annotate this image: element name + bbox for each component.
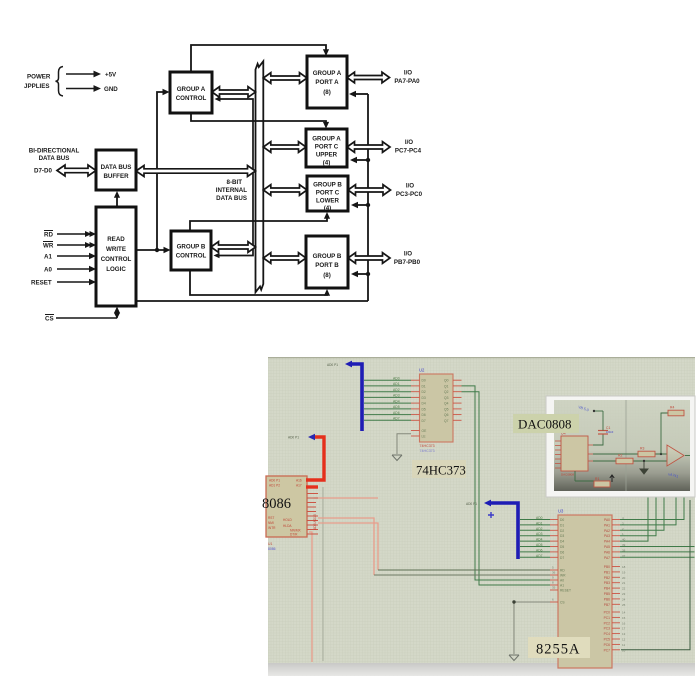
wire: arrow into PORT C LOWER right [351, 202, 370, 208]
resistor R1 bottom [575, 471, 614, 487]
bus arrow PORT C LOWER to I/O [348, 185, 391, 196]
74HC373 pin names [422, 379, 449, 439]
svg-text:JPPLIES: JPPLIES [24, 83, 49, 90]
bus arrow internal bus to PORT C UPPER [263, 142, 306, 153]
8255 left pin names [560, 518, 571, 605]
svg-text:AD1: AD1 [536, 521, 543, 525]
svg-text:BI-DIRECTIONAL: BI-DIRECTIONAL [29, 148, 80, 155]
svg-text:74HC373: 74HC373 [420, 449, 435, 453]
svg-text:CS: CS [45, 316, 54, 323]
svg-text:35: 35 [552, 586, 556, 590]
green data lines into 74HC373 [364, 380, 411, 420]
svg-text:8-BIT: 8-BIT [227, 179, 243, 186]
svg-text:19: 19 [622, 570, 626, 574]
svg-text:PB7-PB0: PB7-PB0 [394, 259, 421, 266]
svg-text:PA7-PA0: PA7-PA0 [394, 78, 420, 85]
svg-text:PORT C: PORT C [315, 144, 339, 151]
wire: arrow into PORT B right [351, 271, 370, 277]
svg-text:GROUP A: GROUP A [312, 136, 341, 143]
svg-text:PA3: PA3 [604, 534, 610, 538]
svg-text:AD0: AD0 [536, 516, 543, 520]
bus arrow buffer to internal bus [136, 166, 256, 177]
svg-text:D1: D1 [560, 523, 564, 527]
wire: gray control line to WR [374, 574, 550, 576]
svg-text:GROUP B: GROUP B [313, 182, 342, 189]
svg-text:DATA BUS: DATA BUS [101, 164, 132, 171]
wire: dark return line right side [621, 500, 690, 650]
svg-text:GROUP A: GROUP A [177, 86, 206, 93]
svg-text:PC1: PC1 [604, 616, 611, 620]
svg-text:A1: A1 [44, 254, 52, 261]
svg-text:U3: U3 [558, 509, 564, 514]
svg-text:PA4: PA4 [604, 540, 610, 544]
svg-text:C1: C1 [606, 426, 610, 430]
block: group B control [171, 231, 211, 270]
svg-text:BUFFER: BUFFER [103, 173, 129, 180]
I/O PC7-PC4 label [395, 139, 422, 155]
svg-text:A1: A1 [560, 584, 564, 588]
wire: read write logic bottom to ports right vertical [136, 300, 368, 302]
svg-text:LOWER: LOWER [316, 198, 340, 205]
svg-text:READ: READ [107, 236, 125, 243]
svg-text:A17: A17 [296, 484, 302, 488]
DAC0808 inset panel [546, 396, 695, 497]
svg-text:(4): (4) [323, 160, 331, 167]
power supplies brace [56, 67, 64, 97]
svg-text:D3: D3 [560, 534, 564, 538]
svg-text:D6: D6 [560, 550, 564, 554]
block: data bus buffer [96, 150, 136, 190]
svg-text:(8): (8) [323, 89, 331, 96]
svg-text:DAC0808: DAC0808 [561, 473, 574, 477]
svg-text:74HC373: 74HC373 [416, 464, 466, 478]
svg-text:Q7: Q7 [444, 419, 449, 423]
inset divider line [625, 400, 627, 491]
svg-text:U2: U2 [419, 368, 425, 373]
74HC373 left pins [411, 380, 420, 436]
svg-text:PA1: PA1 [604, 523, 610, 527]
svg-text:24: 24 [622, 597, 626, 601]
wire: read write logic to group controls (vertical x157) [136, 89, 171, 253]
power supplies label [24, 74, 51, 91]
svg-text:I/O: I/O [404, 70, 412, 77]
svg-text:13: 13 [622, 632, 626, 636]
svg-text:AD4: AD4 [536, 538, 543, 542]
svg-text:WR: WR [560, 574, 566, 578]
svg-text:RESET: RESET [31, 280, 52, 287]
svg-text:R4: R4 [670, 406, 674, 410]
svg-text:GROUP B: GROUP B [313, 253, 342, 260]
wire: pink bus line 2 from 8086 [318, 518, 374, 575]
DAC chip U4 [561, 432, 588, 477]
I/O PB7-PB0 label [394, 251, 421, 267]
wire: pink bus line 1 from 8086 [314, 497, 378, 499]
svg-text:PC3-PC0: PC3-PC0 [396, 191, 423, 198]
blue thick wire to 74HC373 [327, 361, 362, 431]
svg-text:RESET: RESET [560, 589, 571, 593]
svg-text:DATA BUS: DATA BUS [216, 195, 247, 202]
wire: pink bus line 3 from 8086 (turns down to control) [318, 523, 378, 570]
svg-text:PC6: PC6 [604, 643, 611, 647]
wire: control feed vertical (left of bus) to group A / group B control [214, 96, 254, 258]
svg-text:RD: RD [44, 232, 53, 239]
svg-text:POWER: POWER [27, 74, 51, 81]
svg-text:PC7: PC7 [604, 648, 611, 652]
svg-text:A16: A16 [296, 479, 302, 483]
wire: CS net with junction and ground [512, 600, 550, 654]
svg-text:R3: R3 [640, 447, 644, 451]
svg-text:CONTROL: CONTROL [176, 95, 207, 102]
wire: olive control line to RD [378, 569, 550, 571]
DAC chip pins [555, 441, 593, 468]
8255 right pins PA [612, 520, 620, 558]
svg-text:AD5: AD5 [536, 543, 543, 547]
svg-text:PB0: PB0 [604, 565, 610, 569]
wire: group B control bottom to PORT B bottom [190, 270, 330, 296]
ground symbol (74HC373) [392, 455, 402, 461]
svg-text:A0: A0 [44, 267, 52, 274]
svg-text:WRITE: WRITE [106, 246, 126, 253]
svg-text:Q4: Q4 [444, 402, 449, 406]
svg-text:CONTROL: CONTROL [176, 253, 207, 260]
wire A0 input [44, 266, 96, 274]
block: group A port C upper [306, 129, 347, 167]
bus arrow internal bus to PORT A [263, 73, 307, 84]
I/O PC3-PC0 label [396, 183, 423, 199]
bus arrow internal bus to group B control [211, 242, 256, 253]
8255A label patch [528, 637, 590, 658]
svg-text:PC0: PC0 [604, 611, 611, 615]
svg-text:I/O: I/O [405, 139, 413, 146]
svg-text:D7: D7 [560, 556, 564, 560]
svg-text:D2: D2 [560, 529, 564, 533]
svg-text:AD0 P1: AD0 P1 [327, 363, 338, 367]
svg-text:25: 25 [622, 603, 626, 607]
svg-text:AD6: AD6 [393, 411, 400, 415]
block: group B port B [306, 236, 348, 288]
74HC373 label patch [412, 460, 466, 478]
8086 right pins [307, 494, 318, 535]
svg-text:D4: D4 [560, 540, 564, 544]
block: group B port C lower [307, 176, 348, 212]
svg-text:8086: 8086 [262, 496, 291, 512]
svg-text:INTERNAL: INTERNAL [216, 187, 247, 194]
svg-text:HLDA: HLDA [283, 524, 292, 528]
svg-text:Q6: Q6 [444, 413, 449, 417]
wire WR input [43, 242, 96, 250]
svg-text:PB3: PB3 [604, 581, 610, 585]
wire: long faint vertical from 8086 [322, 487, 324, 661]
svg-text:8255A: 8255A [536, 642, 580, 658]
svg-text:12: 12 [622, 638, 626, 642]
svg-text:PORT B: PORT B [315, 262, 339, 269]
svg-text:D6: D6 [422, 413, 426, 417]
8255 right pins PC [612, 612, 620, 650]
svg-text:Q1: Q1 [444, 384, 449, 388]
svg-text:INTR: INTR [268, 526, 276, 530]
svg-text:(4): (4) [324, 205, 332, 212]
svg-text:AD4: AD4 [393, 399, 400, 403]
wire: ports right side vertical [367, 94, 369, 301]
svg-text:PA7: PA7 [604, 556, 610, 560]
bus arrow internal bus to PORT C LOWER [263, 185, 307, 196]
svg-text:PC2: PC2 [604, 621, 611, 625]
svg-text:17: 17 [622, 627, 626, 631]
svg-text:23: 23 [622, 592, 626, 596]
svg-text:AD3: AD3 [536, 532, 543, 536]
svg-text:Q0: Q0 [444, 379, 449, 383]
svg-text:14: 14 [622, 611, 626, 615]
bus arrow PORT B to I/O [348, 253, 390, 264]
svg-text:(8): (8) [323, 272, 331, 279]
wire +5V arrow [66, 71, 117, 79]
I/O PA7-PA0 label [394, 70, 420, 86]
svg-text:OE: OE [422, 429, 428, 433]
wire: arrow into PORT A right [349, 91, 368, 97]
svg-text:AD1 P2: AD1 P2 [269, 484, 280, 488]
svg-text:AD2: AD2 [393, 388, 400, 392]
svg-text:Q3: Q3 [444, 396, 449, 400]
svg-text:PA5: PA5 [604, 545, 610, 549]
ground under R2 junction [640, 461, 648, 474]
svg-text:PA2: PA2 [604, 529, 610, 533]
svg-text:AD5: AD5 [393, 405, 400, 409]
svg-text:PORT C: PORT C [316, 190, 340, 197]
8255 pin numbers [552, 516, 626, 652]
red thick wire at 8086 [288, 434, 324, 487]
svg-text:CONTROL: CONTROL [101, 256, 132, 263]
svg-text:UPPER: UPPER [316, 152, 338, 159]
svg-text:15: 15 [622, 616, 626, 620]
svg-text:HOLD: HOLD [283, 518, 293, 522]
8255A chip [558, 509, 612, 669]
svg-text:D5: D5 [422, 407, 426, 411]
svg-text:AD3: AD3 [393, 394, 400, 398]
wires: 8255 PA outputs to DAC (up under inset) [620, 497, 695, 557]
wire RESET input [31, 279, 96, 287]
DAC0808 label patch [513, 414, 579, 433]
svg-text:PB4: PB4 [604, 587, 610, 591]
8086 chip [266, 476, 307, 537]
svg-text:GROUP B: GROUP B [177, 244, 206, 251]
svg-text:100nF: 100nF [606, 430, 614, 434]
svg-text:PB5: PB5 [604, 592, 610, 596]
svg-text:74HC373: 74HC373 [420, 444, 435, 448]
svg-text:I/O: I/O [406, 183, 414, 190]
svg-text:RST: RST [268, 516, 274, 520]
svg-text:AD0: AD0 [393, 377, 400, 381]
green data lines into 8255 [520, 520, 550, 558]
bottom gray bar [268, 663, 695, 676]
block: group A control [170, 72, 212, 113]
ground symbol (CS) [509, 655, 519, 661]
svg-text:A0: A0 [560, 579, 564, 583]
svg-text:36: 36 [552, 571, 556, 575]
bi-directional data bus label [29, 148, 80, 175]
wire: arrow into PORT C UPPER right [350, 157, 370, 163]
svg-text:PC7-PC4: PC7-PC4 [395, 148, 422, 155]
svg-text:R1: R1 [595, 477, 599, 481]
svg-text:20: 20 [622, 576, 626, 580]
74HC373 chip [419, 368, 453, 443]
wire: group A control top to PORT A top [191, 45, 329, 72]
svg-text:AD1: AD1 [393, 382, 400, 386]
svg-text:AD7: AD7 [536, 554, 543, 558]
svg-text:D1: D1 [422, 384, 426, 388]
block: group A port A [307, 56, 347, 108]
8255 right pin names [604, 518, 611, 652]
svg-text:D7-D0: D7-D0 [34, 168, 52, 175]
svg-text:D5: D5 [560, 545, 564, 549]
svg-text:PC5: PC5 [604, 638, 611, 642]
svg-text:PC3: PC3 [604, 627, 611, 631]
green net labels at 8255 [536, 516, 543, 558]
svg-text:PA0: PA0 [604, 518, 610, 522]
wire + resistor R2 lower [593, 454, 667, 464]
internal data bus (vertical bus band) [256, 61, 264, 292]
svg-text:PB7: PB7 [604, 603, 610, 607]
wire: 74HC373 outputs down to 8255 controls [462, 386, 551, 585]
8255 left pins (data) [550, 520, 558, 558]
svg-text:CS: CS [560, 601, 565, 605]
bus arrow PORT C UPPER to I/O [347, 142, 390, 153]
svg-text:PB6: PB6 [604, 597, 610, 601]
svg-text:RD: RD [560, 569, 565, 573]
svg-text:D3: D3 [422, 396, 426, 400]
wire: 74HC373 LE/OE to ground [397, 434, 411, 454]
capacitor C1 [593, 410, 614, 445]
blue thick wire to 8255 [466, 500, 518, 559]
svg-text:PB1: PB1 [604, 570, 610, 574]
svg-text:18: 18 [622, 565, 626, 569]
svg-text:NMI: NMI [268, 521, 274, 525]
op-amp [667, 445, 690, 466]
svg-text:D2: D2 [422, 390, 426, 394]
8-bit internal data bus label [216, 179, 247, 202]
74HC373 right pins [453, 380, 462, 420]
feedback wire to R4 [661, 406, 684, 455]
svg-text:D7: D7 [422, 419, 426, 423]
svg-text:16: 16 [622, 621, 626, 625]
wire + resistor R3 to op-amp [593, 447, 667, 457]
svg-text:AD7: AD7 [393, 417, 400, 421]
8255 right pins PB [612, 567, 620, 605]
wire CS input [45, 307, 120, 323]
svg-text:DT/R: DT/R [290, 533, 298, 537]
block: read write control logic [96, 207, 136, 306]
svg-text:GROUP A: GROUP A [313, 70, 342, 77]
svg-text:+5V: +5V [105, 72, 117, 79]
svg-text:Q5: Q5 [444, 407, 449, 411]
bus arrow internal bus to PORT B [263, 253, 306, 264]
svg-text:DAC0808: DAC0808 [518, 417, 571, 432]
wire RD input [44, 231, 96, 239]
svg-text:AD0 P1: AD0 P1 [466, 502, 477, 506]
svg-text:AD6: AD6 [536, 548, 543, 552]
svg-text:8086: 8086 [268, 547, 276, 551]
inset grid hint [554, 400, 690, 450]
svg-text:D4: D4 [422, 402, 426, 406]
svg-text:U1: U1 [268, 542, 272, 546]
svg-text:LOGIC: LOGIC [106, 266, 126, 273]
wire: group B control top to PORT C LOWER bottom [190, 212, 330, 231]
schematic background grid [268, 357, 695, 663]
green net labels [393, 377, 400, 421]
bus arrow D7-D0 to buffer [57, 165, 96, 176]
svg-text:DATA BUS: DATA BUS [39, 155, 70, 162]
8255 left pins (control) [550, 570, 558, 602]
svg-text:AD0 P1: AD0 P1 [269, 479, 280, 483]
wire: pink vertical to bottom [309, 532, 312, 662]
svg-text:Q2: Q2 [444, 390, 449, 394]
bus arrow internal bus to group A control [212, 87, 256, 98]
svg-text:PORT A: PORT A [315, 79, 339, 86]
wire A1 input [44, 253, 96, 261]
svg-text:AD8 AD15: AD8 AD15 [313, 514, 317, 530]
svg-text:11: 11 [622, 643, 625, 647]
svg-text:PC4: PC4 [604, 632, 611, 636]
svg-text:D0: D0 [422, 379, 426, 383]
wire: read write logic top to data bus buffer [114, 191, 120, 207]
svg-text:PB2: PB2 [604, 576, 610, 580]
svg-text:WR: WR [43, 243, 54, 250]
svg-text:D0: D0 [560, 518, 564, 522]
svg-text:AD0 P1: AD0 P1 [288, 436, 299, 440]
svg-text:R2: R2 [618, 454, 622, 458]
svg-text:21: 21 [622, 581, 626, 585]
svg-text:PA6: PA6 [604, 550, 610, 554]
svg-text:I/O: I/O [404, 251, 412, 258]
bus arrow PORT A to I/O [347, 72, 390, 83]
svg-text:22: 22 [622, 587, 626, 591]
svg-text:AD2: AD2 [536, 527, 543, 531]
wire GND arrow [66, 85, 118, 93]
wire: group A control bottom to PORT C UPPER top [191, 113, 329, 129]
svg-text:GND: GND [104, 86, 118, 93]
